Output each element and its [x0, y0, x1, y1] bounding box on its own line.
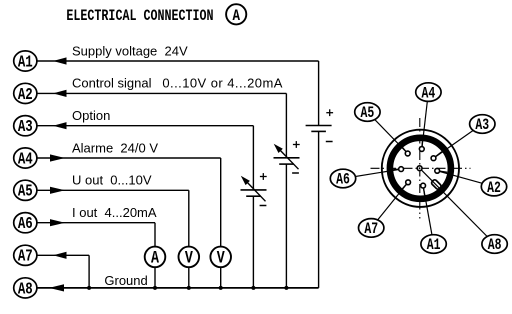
svg-text:Supply voltage 24V: Supply voltage 24V [72, 43, 188, 58]
svg-text:A4: A4 [18, 151, 33, 169]
svg-text:A: A [151, 248, 160, 268]
svg-text:V: V [217, 248, 226, 268]
svg-text:Option: Option [72, 108, 110, 123]
svg-text:A2: A2 [487, 180, 501, 197]
svg-text:A: A [232, 8, 240, 26]
svg-text:V: V [185, 248, 194, 268]
svg-text:A3: A3 [475, 118, 489, 135]
svg-text:A4: A4 [422, 86, 436, 103]
svg-text:Ground: Ground [104, 273, 147, 288]
svg-text:U out 0...10V: U out 0...10V [72, 173, 152, 188]
svg-text:I out 4...20mA: I out 4...20mA [72, 205, 157, 220]
svg-text:A3: A3 [18, 119, 33, 137]
svg-text:A2: A2 [18, 86, 33, 104]
svg-text:ELECTRICAL CONNECTION: ELECTRICAL CONNECTION [66, 7, 213, 25]
svg-text:A5: A5 [18, 183, 33, 201]
svg-text:A7: A7 [18, 248, 33, 266]
svg-text:A6: A6 [336, 172, 350, 189]
svg-text:A6: A6 [18, 216, 33, 234]
svg-text:A8: A8 [18, 281, 33, 299]
svg-text:Control signal 0...10V or 4.: Control signal 0...10V or 4...20mA [72, 76, 283, 91]
svg-text:A7: A7 [364, 222, 378, 239]
svg-text:A5: A5 [361, 106, 375, 123]
svg-text:A1: A1 [427, 238, 441, 255]
svg-text:A8: A8 [488, 238, 502, 255]
svg-text:Alarme 24/0 V: Alarme 24/0 V [72, 140, 158, 155]
svg-text:A1: A1 [18, 54, 33, 72]
